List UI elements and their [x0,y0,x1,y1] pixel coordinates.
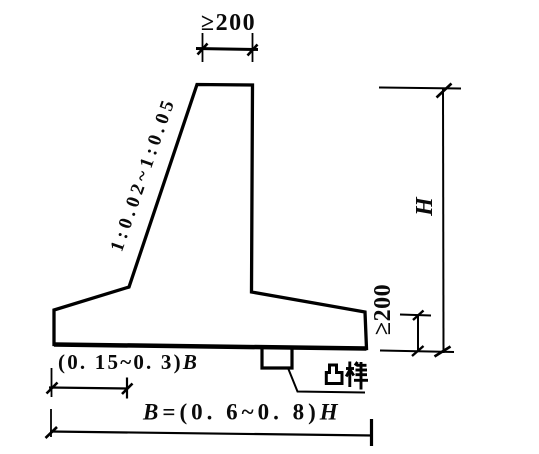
svg-text:B=(0. 6~0. 8)H: B=(0. 6~0. 8)H [142,400,342,425]
svg-text:≥200: ≥200 [201,10,256,36]
svg-text:≥200: ≥200 [370,284,396,335]
svg-text:(0. 15~0. 3)B: (0. 15~0. 3)B [58,350,199,374]
svg-text:H: H [412,196,438,217]
svg-text:1:0.02~1:0.05: 1:0.02~1:0.05 [107,94,181,254]
